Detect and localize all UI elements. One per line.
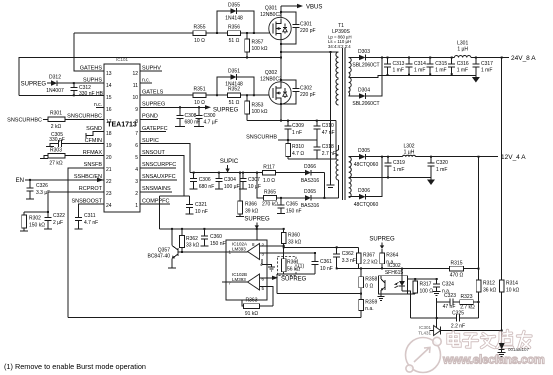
svg-text:R361: R361 [287, 260, 299, 266]
capacitor C316 [448, 57, 469, 76]
svg-text:SUPIC: SUPIC [220, 159, 239, 165]
svg-text:SUPIC: SUPIC [142, 138, 159, 144]
resistor R323 [460, 294, 480, 311]
resistor R356 [228, 25, 241, 45]
capacitor C313 [384, 57, 405, 77]
svg-text:4.7 µF: 4.7 µF [204, 119, 218, 125]
svg-text:SBL2060CT: SBL2060CT [352, 63, 379, 69]
wire pin6 to R363 [260, 287, 274, 307]
svg-text:RFMAX: RFMAX [83, 150, 103, 156]
svg-text:1 mF: 1 mF [393, 68, 404, 74]
svg-text:48CTQ060: 48CTQ060 [354, 162, 379, 168]
resistor R362 [180, 228, 200, 253]
ground under C317 [472, 77, 480, 83]
wire Q301 source to HB junction [280, 39, 282, 58]
svg-text:R359: R359 [365, 299, 377, 305]
svg-text:10 nF: 10 nF [320, 266, 333, 272]
svg-text:C311: C311 [84, 213, 96, 219]
svg-text:SUPREG: SUPREG [281, 276, 307, 282]
resistor R361 with dashed option box [277, 256, 304, 275]
svg-text:36 kΩ: 36 kΩ [483, 287, 496, 293]
diode D303 [349, 49, 380, 69]
wire 12V center tap return [349, 177, 431, 179]
svg-text:C310: C310 [322, 123, 334, 129]
op-amp IC102A [229, 242, 265, 268]
svg-text:2: 2 [135, 191, 138, 197]
svg-text:SNSCURHBC: SNSCURHBC [7, 117, 42, 123]
wire RCPROT [24, 192, 104, 212]
right pin name labels [142, 66, 176, 205]
wire op-amp A output to Q357 base [226, 251, 248, 253]
svg-text:C316: C316 [457, 61, 469, 67]
svg-text:SUPREG: SUPREG [369, 237, 395, 243]
svg-text:C326: C326 [36, 183, 48, 189]
svg-text:680 nF: 680 nF [199, 184, 215, 190]
svg-text:C307: C307 [248, 177, 260, 183]
wire SNSCURHB line [278, 139, 317, 141]
wire D304 up to 24V rail [371, 58, 382, 97]
svg-text:24V_8 A: 24V_8 A [511, 55, 536, 62]
svg-text:270 kΩ: 270 kΩ [262, 202, 278, 208]
transformer T1 labels [328, 23, 352, 49]
wire D306 up to 12V rail [371, 157, 382, 197]
svg-text:COMPPFC: COMPPFC [142, 198, 170, 204]
svg-text:LM393: LM393 [232, 277, 246, 282]
svg-text:SFH615: SFH615 [385, 270, 404, 276]
svg-text:C302: C302 [300, 86, 312, 92]
svg-text:EN: EN [16, 178, 24, 184]
transformer T1 core [342, 48, 345, 200]
capacitor C320 [428, 156, 449, 180]
svg-text:SBL2060CT: SBL2060CT [352, 101, 379, 107]
svg-text:2.2 kΩ: 2.2 kΩ [363, 259, 378, 265]
wire gate rail HS y=33 [74, 32, 271, 34]
svg-text:R367: R367 [363, 253, 375, 259]
wire SUPREG pin9 with arrow [140, 105, 239, 113]
wire LED anode to bias line [401, 269, 403, 276]
resistor R315 [388, 261, 480, 279]
capacitor C310 [313, 120, 334, 140]
svg-text:SUPREG: SUPREG [213, 108, 239, 114]
svg-text:10 Ω: 10 Ω [194, 38, 205, 44]
resistor R366 [236, 172, 258, 217]
svg-text:C317: C317 [481, 61, 493, 67]
svg-text:27 kΩ: 27 kΩ [49, 160, 62, 166]
capacitor C300 [194, 106, 218, 126]
svg-text:6: 6 [135, 143, 138, 149]
svg-text:R310: R310 [292, 144, 304, 150]
svg-text:10: 10 [132, 95, 138, 101]
svg-text:R363: R363 [246, 298, 258, 304]
svg-text:12: 12 [132, 71, 138, 77]
svg-text:51 Ω: 51 Ω [229, 100, 240, 106]
inductor L301 [454, 41, 470, 58]
resistor R357 [245, 32, 268, 59]
capacitor C362 [333, 246, 356, 269]
svg-text:47 nF: 47 nF [443, 304, 456, 310]
diode D312 [46, 75, 104, 95]
svg-text:R364: R364 [386, 253, 398, 259]
svg-text:4.7 Ω: 4.7 Ω [292, 151, 304, 157]
svg-text:2 kΩ: 2 kΩ [51, 124, 62, 130]
svg-text:24: 24 [106, 203, 112, 209]
wire D366/D365 junction vertical [323, 173, 325, 198]
wire R367 bottom line to opto [337, 268, 388, 270]
wire SNSOUT drop to comparator rail [158, 196, 160, 229]
svg-text:R315: R315 [451, 261, 463, 267]
capacitor C361 [312, 252, 333, 274]
svg-text:001aai107: 001aai107 [508, 347, 530, 352]
wire Q302 drain up to HB [280, 58, 282, 83]
capacitor C315 [427, 57, 448, 76]
svg-text:GATEPFC: GATEPFC [142, 126, 168, 132]
svg-text:PGND: PGND [142, 114, 158, 120]
svg-text:C323: C323 [444, 293, 456, 299]
svg-text:R355: R355 [194, 25, 206, 31]
svg-text:VBUS: VBUS [306, 5, 322, 11]
svg-text:Q301: Q301 [265, 6, 277, 12]
svg-text:C321: C321 [195, 202, 207, 208]
svg-text:R323: R323 [461, 294, 473, 300]
capacitor C325 [411, 311, 479, 330]
svg-text:7: 7 [135, 131, 138, 137]
svg-text:R353: R353 [252, 103, 264, 109]
svg-text:1 mF: 1 mF [436, 167, 447, 173]
svg-text:10 Ω: 10 Ω [194, 100, 205, 106]
svg-text:C318: C318 [322, 144, 334, 150]
capacitor C365 [277, 197, 302, 214]
wire SUPREG pin8 into box [256, 229, 258, 240]
svg-text:1N4148: 1N4148 [225, 82, 243, 88]
ground under C320 [427, 180, 435, 186]
svg-text:1 µH: 1 µH [457, 47, 468, 53]
resistor R352 [228, 87, 241, 107]
capacitor C323 [443, 293, 460, 310]
svg-text:220 pF: 220 pF [300, 92, 316, 98]
svg-text:12V_4 A: 12V_4 A [501, 154, 526, 161]
svg-text:R358: R358 [365, 277, 377, 283]
svg-text:R317: R317 [420, 282, 432, 288]
svg-text:56 kΩ: 56 kΩ [287, 266, 300, 272]
wire VBUS line [281, 4, 322, 17]
wire SNSOUT pin path [140, 156, 184, 196]
wire drop to R358 junction line [276, 274, 278, 294]
svg-text:R301: R301 [50, 111, 62, 117]
svg-text:1 µH: 1 µH [404, 150, 415, 156]
svg-text:220 pF: 220 pF [300, 28, 316, 34]
svg-text:1 mF: 1 mF [414, 68, 425, 74]
wire HB to pin15 [19, 94, 104, 96]
svg-text:LM393: LM393 [232, 247, 246, 252]
capacitor C314 [406, 57, 427, 76]
svg-text:SNSCURHBC: SNSCURHBC [67, 114, 102, 120]
resistor R351 [193, 87, 206, 107]
wire op-amp B output stub pin7 [222, 281, 248, 283]
op-amp IC102B [229, 272, 265, 291]
wire SUPIC pin to rail [140, 144, 190, 173]
svg-text:SUPREG: SUPREG [142, 102, 165, 108]
capacitor C302 [280, 79, 316, 105]
wire opto bottom line [408, 293, 416, 295]
capacitor C308 [175, 106, 200, 126]
svg-text:R360: R360 [288, 233, 300, 239]
svg-text:RCPROT: RCPROT [79, 186, 103, 192]
resistor R365 [262, 190, 305, 208]
svg-text:R117: R117 [263, 164, 275, 170]
svg-text:0 Ω: 0 Ω [365, 283, 373, 289]
svg-text:1N4007: 1N4007 [46, 88, 64, 94]
transformer primary winding upper [336, 52, 339, 78]
diode D351 parallel loop [216, 69, 255, 97]
resistor R367 [356, 247, 377, 268]
svg-text:D366: D366 [304, 164, 316, 170]
svg-text:SUPREG: SUPREG [244, 217, 270, 223]
svg-text:10 kΩ: 10 kΩ [506, 287, 519, 293]
svg-text:150 nF: 150 nF [286, 208, 302, 214]
svg-text:D303: D303 [358, 49, 370, 55]
svg-text:C314: C314 [414, 61, 426, 67]
svg-text:BAS316: BAS316 [301, 178, 320, 184]
diode D366 [301, 164, 325, 184]
svg-text:12NB0C3: 12NB0C3 [260, 77, 282, 83]
svg-text:1 mF: 1 mF [393, 167, 404, 173]
wire EN to SSHBC/EN pin [25, 179, 104, 181]
wire sense bottom line [288, 158, 336, 160]
svg-text:R303: R303 [50, 148, 62, 154]
svg-text:20: 20 [106, 155, 112, 161]
node SUPREG comparator supply [244, 217, 270, 229]
wire opto collector top line [408, 278, 437, 280]
svg-text:SNSCURPFC: SNSCURPFC [142, 162, 176, 168]
svg-text:51 Ω: 51 Ω [229, 38, 240, 44]
node SUPREG into pin5 [260, 276, 307, 283]
capacitor C322 [44, 211, 65, 229]
resistor R358 [359, 267, 378, 294]
svg-text:3: 3 [135, 179, 138, 185]
pin numbers left side 13-24 [106, 71, 112, 209]
svg-text:150 nF: 150 nF [210, 241, 226, 247]
svg-text:100 kΩ: 100 kΩ [252, 109, 268, 115]
capacitor C318 [313, 140, 336, 159]
diode D365 [301, 189, 339, 209]
capacitor C360 [200, 228, 225, 247]
svg-text:R312: R312 [483, 281, 495, 287]
wire HB line to left loop [19, 58, 281, 96]
svg-text:4.7 nF: 4.7 nF [84, 220, 98, 226]
svg-text:33 kΩ: 33 kΩ [186, 242, 199, 248]
svg-text:C320: C320 [436, 160, 448, 166]
pin numbers right side 12-1 [132, 71, 138, 209]
svg-text:C315: C315 [435, 61, 447, 67]
resistor R314 [499, 280, 519, 343]
svg-text:C362: C362 [342, 251, 354, 257]
inductor L302 [403, 144, 416, 157]
svg-text:22: 22 [106, 179, 112, 185]
svg-text:C361: C361 [320, 259, 332, 265]
resistor R355 [193, 25, 206, 45]
shunt regulator IC301 TL431 [418, 325, 502, 336]
wire feedback rail bottom [68, 317, 361, 319]
capacitor C301 [280, 11, 316, 45]
svg-text:R365: R365 [264, 190, 276, 196]
svg-text:13: 13 [106, 71, 112, 77]
svg-text:34:4:4:2.2:4: 34:4:4:2.2:4 [328, 44, 351, 49]
resistor R310 [286, 139, 305, 159]
svg-text:Q357: Q357 [158, 247, 170, 253]
svg-text:SUPREG: SUPREG [21, 82, 47, 88]
diode D304 [349, 88, 380, 108]
svg-text:D305: D305 [358, 148, 370, 154]
capacitor C304 [215, 172, 240, 190]
svg-text:3.3 nF: 3.3 nF [342, 258, 356, 264]
svg-text:12NB0C3: 12NB0C3 [260, 12, 282, 18]
svg-text:1N4148: 1N4148 [225, 16, 243, 22]
wire Q302 source down to PGND rail [280, 103, 282, 121]
svg-text:D312: D312 [49, 75, 61, 81]
wire 24V center tap / cap return [349, 76, 476, 78]
svg-text:R314: R314 [506, 281, 518, 287]
resistor R302 [20, 212, 45, 231]
svg-text:5: 5 [135, 155, 138, 161]
svg-text:C304: C304 [224, 177, 236, 183]
svg-text:R357: R357 [252, 40, 264, 46]
svg-text:4: 4 [135, 167, 138, 173]
svg-text:47 nF: 47 nF [322, 130, 335, 136]
ground op-amp pin4 [262, 259, 275, 271]
svg-text:10 nF: 10 nF [195, 209, 208, 215]
diode D355 parallel loop [216, 3, 255, 35]
svg-text:100 µF: 100 µF [224, 184, 240, 190]
svg-text:150 kΩ: 150 kΩ [29, 222, 45, 228]
svg-text:R366: R366 [245, 202, 257, 208]
transistor Q357 [147, 228, 226, 268]
svg-text:C313: C313 [393, 61, 405, 67]
svg-text:23: 23 [106, 191, 112, 197]
wire comparator top rail [159, 228, 283, 230]
svg-text:11: 11 [133, 83, 138, 89]
svg-text:IC301: IC301 [419, 325, 432, 330]
svg-text:16: 16 [106, 107, 112, 113]
transformer secondary 12V windings [349, 157, 352, 178]
svg-text:Q302: Q302 [265, 70, 277, 76]
capacitor C317 [472, 57, 493, 78]
op-amp/IC main: TEA1713 IC101 body [104, 57, 140, 212]
svg-text:91 kΩ: 91 kΩ [245, 311, 258, 317]
svg-text:D355: D355 [228, 3, 240, 9]
wire primary drop [335, 121, 337, 159]
svg-text:TEA1713: TEA1713 [107, 122, 137, 129]
svg-text:680 nF: 680 nF [185, 119, 201, 125]
transformer primary winding lower [336, 150, 338, 180]
svg-text:SNSOUT: SNSOUT [142, 150, 166, 156]
wire pin2 line [260, 245, 284, 247]
svg-text:D304: D304 [358, 88, 370, 94]
svg-text:2.7 nF: 2.7 nF [322, 151, 336, 157]
svg-text:C360: C360 [210, 234, 222, 240]
wire 12V sense drop [478, 157, 480, 280]
diode D306 [349, 188, 379, 208]
capacitor C326 [26, 179, 50, 199]
svg-text:33 kΩ: 33 kΩ [288, 239, 301, 245]
svg-text:C322: C322 [53, 213, 65, 219]
resistor R360 [281, 228, 301, 259]
svg-text:C308: C308 [185, 113, 197, 119]
svg-text:GATELS: GATELS [142, 90, 164, 96]
resistor R117 [263, 164, 306, 184]
svg-text:1 mF: 1 mF [457, 68, 468, 74]
resistor R317 [413, 278, 433, 294]
wire GATELS rail [140, 94, 271, 96]
svg-text:SNSMAINS: SNSMAINS [142, 186, 171, 192]
svg-text:9: 9 [135, 107, 138, 113]
wire R365 branch from SUPIC rail [257, 173, 264, 198]
svg-text:14: 14 [106, 83, 112, 89]
node SUPREG right [369, 237, 395, 249]
svg-text:R362: R362 [186, 236, 198, 242]
capacitor C312 [70, 82, 103, 97]
svg-text:R352: R352 [228, 87, 240, 93]
capacitor C305 [46, 132, 104, 147]
resistor R301 [43, 111, 104, 130]
svg-text:SGND: SGND [86, 126, 102, 132]
svg-text:19: 19 [106, 143, 112, 149]
node SUPIC label arrow [220, 159, 239, 173]
svg-text:CFMIN: CFMIN [85, 138, 102, 144]
wire 24V rail [371, 57, 454, 59]
resistor R363 [242, 298, 273, 318]
wire pin3 line [260, 252, 316, 254]
wire SUPIC rail [190, 172, 262, 174]
svg-text:1.0 Ω: 1.0 Ω [263, 178, 275, 184]
svg-text:C301: C301 [300, 22, 312, 28]
svg-text:BAS316: BAS316 [301, 203, 320, 209]
capacitor C324 [433, 278, 454, 296]
capacitor C311 [74, 212, 98, 229]
svg-text:48CTQ060: 48CTQ060 [354, 202, 379, 208]
svg-text:C319: C319 [393, 160, 405, 166]
svg-text:21: 21 [106, 167, 112, 173]
svg-text:(1) Remove to enable Burst mod: (1) Remove to enable Burst mode operatio… [4, 362, 146, 371]
svg-text:R302: R302 [29, 216, 41, 222]
svg-text:n.a.: n.a. [365, 306, 373, 312]
ground SGND [86, 132, 104, 139]
svg-text:100 kΩ: 100 kΩ [252, 46, 268, 52]
svg-text:SNSFB: SNSFB [84, 162, 103, 168]
svg-text:R351: R351 [194, 87, 206, 93]
svg-text:D365: D365 [304, 189, 316, 195]
svg-text:1 nF: 1 nF [292, 130, 302, 136]
svg-text:2 µF: 2 µF [53, 220, 63, 226]
svg-text:1 mF: 1 mF [435, 68, 446, 74]
svg-text:C324: C324 [442, 282, 454, 288]
wire C323 branch line [437, 301, 450, 303]
svg-text:10 µF: 10 µF [248, 184, 261, 190]
svg-text:C309: C309 [292, 123, 304, 129]
svg-text:R356: R356 [228, 25, 240, 31]
left pin name labels [67, 66, 102, 205]
resistor R312 [476, 280, 496, 318]
resistor R303 [40, 148, 104, 167]
wire 12V rail [371, 156, 403, 158]
ground under IC302 transistor [378, 297, 385, 301]
wire primary outer return [327, 51, 335, 188]
transistor Q302 MOSFET [260, 70, 291, 104]
svg-text:www.elecfans.com: www.elecfans.com [442, 353, 545, 367]
resistor R364 [380, 249, 399, 270]
svg-text:330 pF: 330 pF [49, 137, 65, 143]
wire: stub n.c. pin16 left [96, 106, 104, 108]
diode D305 [349, 148, 379, 168]
